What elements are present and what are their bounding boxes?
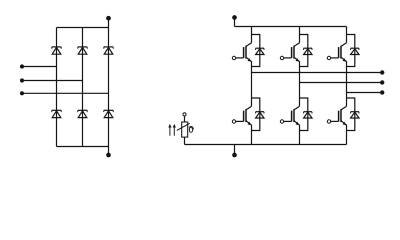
wire thermistor bottom lead to DC- rail — [184, 137, 186, 144]
terminal phase V (dot) — [380, 80, 384, 84]
wire Q5 collector/diode branch — [300, 98, 308, 131]
transistor Q2 (IGBT) — [284, 35, 300, 62]
terminal AC input L1 (dot) — [20, 64, 24, 68]
transistor Q3 (IGBT) — [331, 35, 347, 62]
thermistor R7 (NTC) body — [177, 122, 190, 137]
wire phase output V — [300, 82, 383, 84]
wire rectifier column 2 — [82, 28, 84, 147]
terminal Q4 gate — [232, 120, 235, 123]
transistor Q4 (IGBT) — [236, 98, 252, 125]
thermistor arrows — [168, 124, 176, 136]
wire AC input L1 — [22, 66, 57, 68]
wire phase output W — [347, 92, 383, 94]
terminal inverter DC- (dot) — [232, 145, 237, 158]
wire rectifier column 1 — [56, 28, 58, 147]
diode D2 (rectifier upper arm 2) — [78, 47, 87, 54]
terminal thermistor top — [183, 113, 186, 116]
wire inverter DC+ top rail — [235, 26, 347, 28]
terminal inverter DC+ (dot) — [232, 15, 237, 26]
wire inverter column 2 trunk — [299, 27, 301, 145]
diode D4 (rectifier lower arm 1) — [52, 110, 61, 117]
terminal Q1 gate — [232, 56, 235, 59]
freewheel diode D9 (antiparallel to Q3) — [351, 48, 359, 54]
wire inverter column 1 trunk — [251, 27, 253, 145]
wire AC input L2 — [22, 80, 83, 82]
freewheel diode D12 (antiparallel to Q6) — [351, 112, 359, 118]
freewheel diode D7 (antiparallel to Q1) — [256, 48, 264, 54]
terminal Q5 gate — [280, 120, 283, 123]
wire phase output U — [252, 72, 383, 74]
terminal phase U (dot) — [380, 70, 384, 74]
thermistor temperature symbol ϑ (drawn) — [189, 126, 193, 132]
transistor Q6 (IGBT) — [331, 98, 347, 125]
freewheel diode D10 (antiparallel to Q4) — [256, 112, 264, 118]
terminal AC input L2 (dot) — [20, 78, 24, 82]
wire Q4 collector/diode branch — [251, 98, 259, 131]
terminal Q2 gate — [280, 56, 283, 59]
wire Q1 collector/diode branch — [251, 35, 259, 67]
transistor Q5 (IGBT) — [284, 98, 300, 125]
terminal rectifier DC+ (dot) — [106, 16, 111, 28]
diode D3 (rectifier upper arm 3) — [104, 47, 113, 54]
diode D1 (rectifier upper arm 1) — [52, 47, 61, 54]
diode D6 (rectifier lower arm 3) — [104, 110, 113, 117]
terminal phase W (dot) — [380, 90, 384, 94]
terminal AC input L3 (dot) — [20, 91, 24, 95]
wire inverter column 3 trunk — [346, 27, 348, 145]
freewheel diode D8 (antiparallel to Q2) — [304, 48, 312, 54]
freewheel diode D11 (antiparallel to Q5) — [304, 112, 312, 118]
terminal Q3 gate — [327, 56, 330, 59]
wire Q6 collector/diode branch — [347, 98, 355, 131]
wire rectifier DC+ top rail — [57, 27, 109, 29]
wire rectifier column 3 — [108, 28, 110, 147]
wire Q3 collector/diode branch — [347, 35, 355, 67]
terminal Q6 gate — [327, 120, 330, 123]
wire thermistor top lead — [184, 116, 186, 122]
terminal rectifier DC- (dot) — [106, 147, 111, 158]
wire AC input L3 — [22, 92, 109, 94]
transistor Q1 (IGBT) — [236, 35, 252, 62]
wire inverter DC- bottom rail — [185, 144, 347, 146]
diode D5 (rectifier lower arm 2) — [78, 110, 87, 117]
wire rectifier DC- bottom rail — [57, 146, 109, 148]
wire Q2 collector/diode branch — [300, 35, 308, 67]
